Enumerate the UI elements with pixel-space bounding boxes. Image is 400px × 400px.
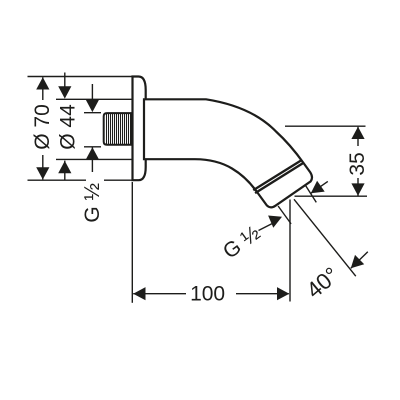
arrows (filled): [36, 77, 364, 300]
svg-text:35: 35: [346, 152, 369, 175]
40 degree diagonal line: [294, 199, 356, 276]
shower arm body: [144, 99, 312, 207]
svg-text:Ø 70: Ø 70: [31, 104, 54, 150]
dim line 100: [133, 293, 289, 295]
ext line arm bottom (dia 44): [56, 158, 132, 160]
ext line thread top: [84, 112, 101, 114]
wall flange (escutcheon): [133, 77, 146, 181]
arrow 35 bottom (down): [351, 183, 364, 195]
arrow 100 left: [133, 287, 145, 300]
dim line 35: [357, 127, 359, 196]
ext line 35 bottom: [295, 195, 368, 197]
arrow dia70 bottom (down): [36, 167, 49, 179]
tail of 40deg arrow: [351, 252, 368, 268]
arrow 40deg (points down-left): [351, 255, 364, 268]
arrow 35 top (up): [351, 127, 364, 139]
dim line dia70: [42, 77, 44, 179]
spout groove line 2: [255, 163, 303, 193]
arrow dia70 top (up): [36, 77, 49, 89]
arrow dia44 top (down, outside): [58, 86, 71, 98]
ext line thread bottom: [84, 146, 101, 148]
svg-text:G ½: G ½: [81, 183, 104, 223]
thread hatch lines: [107, 113, 131, 144]
ext line 35 top: [285, 125, 366, 127]
outlet tick near face bottom corner: [278, 206, 291, 224]
arrow dia44 bottom (up, outside): [58, 161, 71, 173]
arrow 100 right: [277, 287, 289, 300]
ext line flange top (dia 70): [28, 76, 133, 78]
dimension thin lines: [28, 73, 368, 303]
ext line flange bottom (dia 70), gap for G1/2 text: [28, 179, 133, 181]
ext line 100 right (spout tip vertical): [289, 200, 291, 302]
tail of outlet arrow B: [311, 181, 328, 193]
arrow thread top (down, outside): [86, 100, 99, 112]
svg-text:Ø 44: Ø 44: [57, 104, 80, 150]
svg-text:100: 100: [190, 283, 225, 306]
ext line 100 left: [131, 182, 133, 303]
ext line arm top (dia 44): [56, 98, 132, 100]
threaded inlet (knurled thread G1/2): [104, 113, 132, 145]
dim line dia44: [64, 73, 66, 181]
arrow G1/2 outlet B (points down-left): [311, 181, 325, 194]
leader line G1/2 outlet: [259, 223, 274, 231]
arrow G1/2 outlet A (points up-right): [268, 216, 282, 228]
outlet tick near face top corner: [305, 185, 316, 202]
dim line G1/2 thread: [91, 84, 93, 172]
spout groove line 1: [253, 160, 301, 190]
arrow thread bottom (up, outside): [86, 147, 99, 159]
